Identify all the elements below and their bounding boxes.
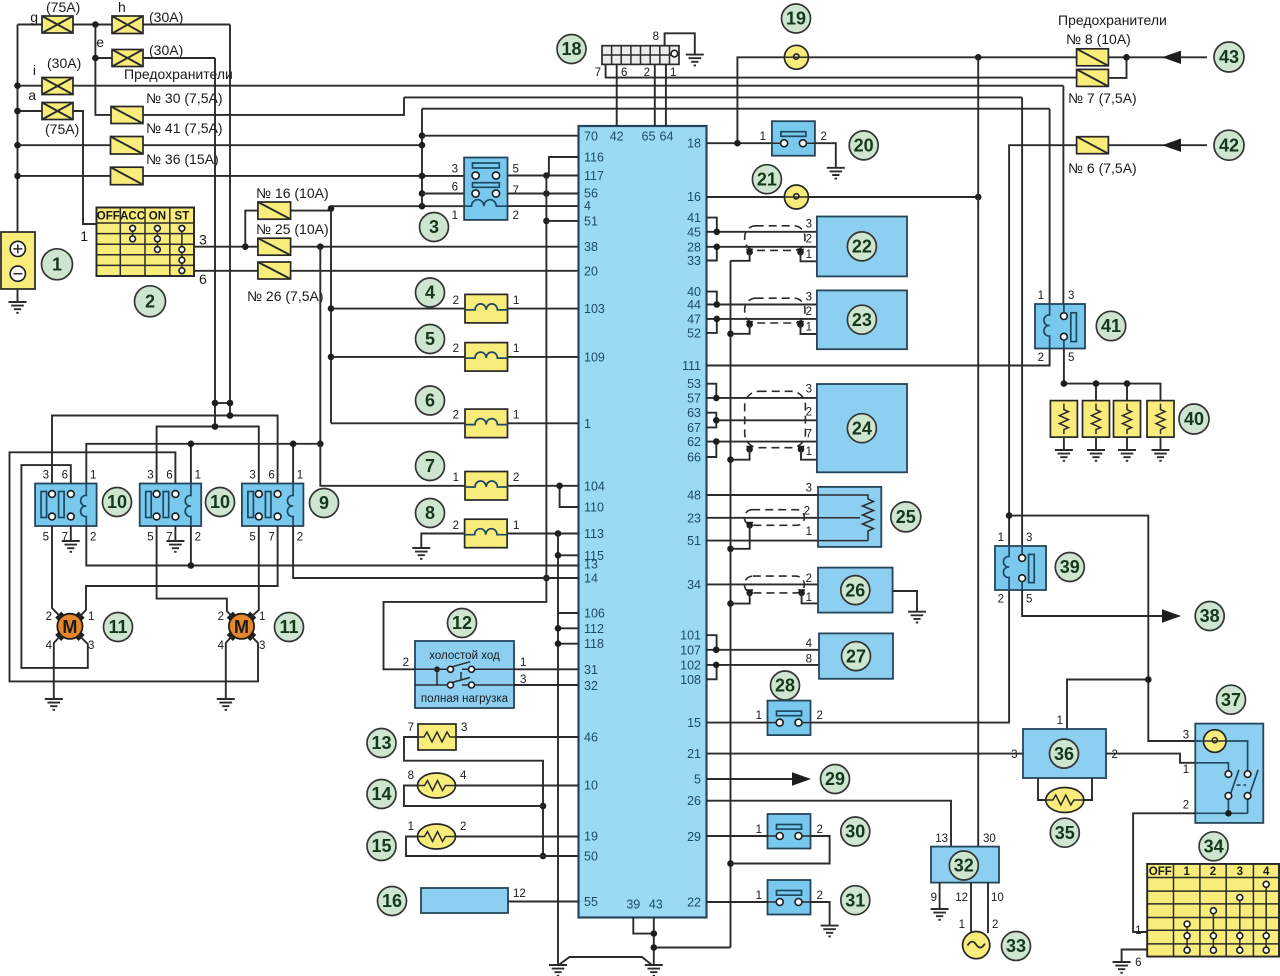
lamp 21 bbox=[784, 185, 808, 209]
wire relay9 pin2 to ECU 14 bbox=[293, 526, 578, 578]
wire ECU 111 to relay41 pin2 bbox=[707, 349, 1050, 366]
wire shield26 drain bbox=[731, 593, 819, 604]
battery 1 bbox=[1, 232, 35, 289]
wire comp36 legs to glow plug 35 bbox=[1038, 778, 1092, 800]
svg-text:2: 2 bbox=[513, 472, 519, 484]
svg-text:4: 4 bbox=[806, 638, 813, 650]
wire relay9 pin5 to motor11b pin1 bbox=[250, 526, 259, 618]
wire ECU 41/45 pair to comp22 pin3 bbox=[707, 218, 817, 236]
node label 22 bbox=[847, 232, 876, 261]
node label 33 bbox=[1002, 932, 1031, 961]
wire ECU 48 to comp25 pin3 bbox=[707, 494, 819, 496]
wire relay41 pin5 to resistor bus bbox=[1061, 349, 1161, 401]
svg-text:6: 6 bbox=[268, 470, 274, 482]
wire comp12 pin3 to ECU 32 bbox=[514, 684, 579, 686]
sensor 24 bbox=[806, 384, 907, 473]
wire ECU 53/57 pair to comp24 pin3 bbox=[707, 384, 817, 402]
svg-text:53: 53 bbox=[687, 377, 701, 391]
svg-text:2: 2 bbox=[817, 824, 823, 836]
svg-text:34: 34 bbox=[687, 578, 701, 592]
ground relay10a pin7 bbox=[62, 526, 80, 552]
relay 28 bbox=[756, 701, 823, 736]
ignition coil module 32 bbox=[931, 833, 1004, 904]
svg-text:14: 14 bbox=[584, 572, 598, 586]
svg-text:2: 2 bbox=[821, 131, 827, 143]
component 27 bbox=[806, 633, 893, 678]
svg-text:4: 4 bbox=[218, 640, 225, 652]
svg-text:OFF: OFF bbox=[97, 211, 120, 223]
ignition switch 2 table bbox=[80, 208, 207, 288]
node label 34 bbox=[1199, 832, 1228, 861]
svg-text:1: 1 bbox=[1183, 866, 1190, 878]
svg-text:2: 2 bbox=[513, 210, 519, 222]
wire fuse8 to arrow 43 bbox=[1108, 51, 1207, 64]
svg-text:21: 21 bbox=[687, 747, 701, 761]
node label 11 (left) bbox=[104, 613, 133, 642]
svg-text:1: 1 bbox=[520, 657, 526, 669]
svg-text:3: 3 bbox=[88, 640, 94, 652]
wire lamp14 pin8 loop bbox=[404, 786, 543, 807]
svg-text:1: 1 bbox=[259, 611, 265, 623]
relay 41 bbox=[1035, 290, 1085, 364]
svg-text:3: 3 bbox=[1237, 866, 1243, 878]
wire lamp14 to ECU 10 bbox=[456, 785, 579, 787]
wire vertical x1022.1 to relay39 pin3 bbox=[1021, 97, 1023, 546]
svg-text:23: 23 bbox=[852, 310, 872, 330]
svg-text:1: 1 bbox=[760, 131, 766, 143]
arrow 29 from ECU 5 bbox=[707, 772, 812, 785]
node label 1 bbox=[42, 249, 73, 280]
wire injector4 to ECU 103 bbox=[331, 308, 579, 310]
svg-text:№ 16 (10А): № 16 (10А) bbox=[256, 185, 329, 201]
svg-text:2: 2 bbox=[998, 594, 1004, 606]
wire fuse16 feed bbox=[245, 211, 258, 247]
node label 10 (left) bbox=[103, 488, 132, 517]
wire injector8 left to ground bbox=[412, 534, 464, 559]
relay 3 main relay bbox=[452, 158, 519, 223]
ground comp26 bbox=[893, 591, 926, 623]
injector 4 bbox=[453, 294, 520, 323]
svg-text:7: 7 bbox=[595, 67, 601, 79]
svg-text:6: 6 bbox=[166, 470, 172, 482]
svg-text:20: 20 bbox=[584, 264, 598, 278]
fusible link g (75A) bbox=[30, 0, 80, 33]
svg-text:4: 4 bbox=[460, 770, 467, 782]
svg-text:3: 3 bbox=[43, 470, 49, 482]
svg-text:7: 7 bbox=[806, 429, 812, 441]
wire relay pin2s to ECU 13 bbox=[86, 526, 578, 569]
svg-text:1: 1 bbox=[806, 526, 812, 538]
svg-text:12: 12 bbox=[955, 892, 968, 904]
svg-text:a: a bbox=[28, 87, 36, 103]
ground motor11b bbox=[217, 635, 235, 710]
wire motor11a pin1 to relay9 pin7 bbox=[79, 526, 278, 618]
wire fuse6 feed vertical x1009.1 bbox=[1006, 145, 1077, 546]
svg-text:21: 21 bbox=[757, 169, 777, 189]
svg-text:32: 32 bbox=[584, 679, 598, 693]
svg-text:6: 6 bbox=[1135, 957, 1141, 969]
switch unit 37 bbox=[1183, 724, 1264, 823]
wire shield23 drain bbox=[731, 325, 817, 334]
svg-text:22: 22 bbox=[687, 896, 701, 910]
svg-text:1: 1 bbox=[756, 710, 762, 722]
wire fuse e output vertical x215 bbox=[143, 58, 215, 427]
svg-text:6: 6 bbox=[452, 182, 458, 194]
svg-text:26: 26 bbox=[687, 794, 701, 808]
svg-text:41: 41 bbox=[1101, 316, 1121, 336]
svg-text:3: 3 bbox=[1183, 730, 1189, 742]
svg-text:31: 31 bbox=[845, 890, 865, 910]
node label 10 (middle) bbox=[206, 488, 235, 517]
svg-text:M: M bbox=[234, 617, 249, 637]
shield comp26 bbox=[744, 576, 805, 597]
svg-text:19: 19 bbox=[786, 9, 806, 29]
ground connector18 pin8 bbox=[665, 33, 704, 65]
svg-text:8: 8 bbox=[408, 770, 414, 782]
svg-text:M: M bbox=[62, 617, 77, 637]
svg-text:1: 1 bbox=[452, 210, 458, 222]
svg-text:30: 30 bbox=[983, 833, 996, 845]
svg-text:67: 67 bbox=[687, 421, 701, 435]
svg-text:1: 1 bbox=[584, 417, 591, 431]
fuse No7 (7.5A) bbox=[1068, 69, 1137, 106]
svg-text:№ 8 (10А): № 8 (10А) bbox=[1066, 31, 1131, 47]
svg-text:2: 2 bbox=[804, 506, 810, 518]
wire fuse h output vertical x230 bbox=[229, 25, 231, 416]
node label 8 bbox=[416, 499, 445, 528]
wire ECU 22 to relay31 pin1 bbox=[707, 901, 768, 903]
node label 12 bbox=[448, 609, 477, 638]
wire lamp19 to fuse8 bbox=[808, 54, 1076, 61]
svg-text:57: 57 bbox=[687, 391, 701, 405]
ground battery bbox=[9, 289, 27, 313]
wire ground vertical x558 with ECU 115/106/112/118 stubs bbox=[549, 534, 579, 976]
svg-text:44: 44 bbox=[687, 298, 701, 312]
wire fuse6 to arrow 42 bbox=[1108, 139, 1207, 152]
wire ECU 29 to relay30 pin1 bbox=[707, 835, 768, 837]
arrow 38 from relay39 pin5 bbox=[1022, 590, 1181, 623]
svg-text:ACC: ACC bbox=[120, 211, 145, 223]
svg-text:65: 65 bbox=[642, 130, 656, 144]
svg-text:3: 3 bbox=[806, 384, 812, 396]
svg-text:46: 46 bbox=[584, 731, 598, 745]
svg-text:1: 1 bbox=[1038, 290, 1044, 302]
ground motor11a bbox=[45, 635, 63, 710]
svg-text:(75А): (75А) bbox=[46, 0, 80, 15]
node label 18 bbox=[557, 35, 586, 64]
svg-text:7: 7 bbox=[408, 722, 414, 734]
svg-text:3: 3 bbox=[452, 164, 458, 176]
svg-text:(75А): (75А) bbox=[45, 121, 79, 137]
svg-text:15: 15 bbox=[687, 716, 701, 730]
svg-text:1: 1 bbox=[513, 520, 519, 532]
fuse No16 (10A) bbox=[256, 185, 329, 219]
svg-text:2: 2 bbox=[817, 710, 823, 722]
svg-text:10: 10 bbox=[107, 492, 127, 512]
svg-text:9: 9 bbox=[319, 493, 329, 513]
wire vertical x546.4 to comp12 pin2 bbox=[384, 176, 550, 670]
wire relay10a pin5 to motor11a pin2 bbox=[52, 526, 61, 618]
svg-text:1: 1 bbox=[80, 228, 88, 244]
svg-text:3: 3 bbox=[199, 232, 207, 248]
svg-text:22: 22 bbox=[852, 237, 872, 257]
svg-text:2: 2 bbox=[195, 532, 201, 544]
svg-text:7: 7 bbox=[425, 456, 435, 476]
svg-text:1: 1 bbox=[806, 592, 812, 604]
svg-text:2: 2 bbox=[1112, 749, 1118, 761]
svg-text:50: 50 bbox=[584, 850, 598, 864]
svg-text:3: 3 bbox=[461, 722, 467, 734]
resistor 40b bbox=[1083, 401, 1110, 461]
svg-text:1: 1 bbox=[453, 472, 459, 484]
wire ECU 40/44 pair to comp23 pin3 bbox=[707, 292, 817, 308]
svg-text:2: 2 bbox=[90, 532, 96, 544]
svg-text:40: 40 bbox=[687, 285, 701, 299]
svg-text:g: g bbox=[30, 9, 38, 25]
svg-text:№ 6 (7,5А): № 6 (7,5А) bbox=[1068, 160, 1137, 176]
wire bus y108.7 feed vertical x422 bbox=[419, 109, 426, 207]
svg-text:51: 51 bbox=[584, 214, 598, 228]
component 16 bbox=[421, 888, 526, 913]
svg-text:1: 1 bbox=[513, 410, 519, 422]
ground comp32 pin9 bbox=[931, 883, 949, 920]
svg-text:3: 3 bbox=[806, 219, 812, 231]
svg-text:9: 9 bbox=[931, 892, 937, 904]
svg-text:8: 8 bbox=[425, 503, 435, 523]
wire fuse e/h feed vertical x95.4 bbox=[95, 25, 112, 115]
wire shield22 drain bbox=[731, 252, 817, 261]
svg-text:33: 33 bbox=[1006, 936, 1026, 956]
node label 6 bbox=[416, 386, 445, 415]
svg-text:1: 1 bbox=[756, 890, 762, 902]
wire comp37 pin2 to table34 bbox=[1133, 813, 1195, 932]
wire injector7 to ECU 104/110 bbox=[320, 444, 578, 507]
svg-text:16: 16 bbox=[382, 891, 402, 911]
injector 8 bbox=[453, 519, 520, 548]
svg-text:25: 25 bbox=[896, 507, 916, 527]
ground relay10b pin7 bbox=[166, 526, 184, 552]
fuse No26 (7.5A) bbox=[247, 262, 324, 304]
relay 10 (left) bbox=[35, 470, 97, 544]
svg-text:20: 20 bbox=[854, 136, 874, 156]
svg-text:2: 2 bbox=[453, 410, 459, 422]
svg-text:8: 8 bbox=[653, 31, 659, 43]
wire ECU 47/52 pair to comp23 pin2 bbox=[707, 316, 817, 333]
svg-text:103: 103 bbox=[584, 302, 605, 316]
svg-text:45: 45 bbox=[687, 225, 701, 239]
svg-text:43: 43 bbox=[649, 898, 663, 912]
wire vertical x1063.4 to relay41 pin3 bbox=[1062, 86, 1064, 304]
svg-text:12: 12 bbox=[513, 888, 526, 900]
node label 40 bbox=[1179, 404, 1209, 434]
svg-text:62: 62 bbox=[687, 435, 701, 449]
svg-text:5: 5 bbox=[425, 329, 435, 349]
svg-text:13: 13 bbox=[935, 833, 948, 845]
wire relay28 pin2 to relay39 pin2 bbox=[811, 590, 1010, 723]
sensor 23 bbox=[806, 290, 907, 349]
svg-text:112: 112 bbox=[584, 622, 604, 636]
svg-text:7: 7 bbox=[268, 532, 274, 544]
svg-text:27: 27 bbox=[846, 646, 866, 666]
injector 7 bbox=[453, 472, 520, 501]
svg-text:8: 8 bbox=[806, 653, 812, 665]
svg-text:(30А): (30А) bbox=[149, 9, 183, 25]
wire shield24 drain bbox=[731, 449, 817, 459]
svg-text:41: 41 bbox=[687, 211, 701, 225]
svg-text:6: 6 bbox=[199, 271, 207, 287]
wire line A relay10a pin3 to relay9 pin6 bbox=[52, 412, 278, 483]
svg-text:117: 117 bbox=[584, 169, 604, 183]
oxygen sensor 22 bbox=[806, 217, 907, 277]
svg-text:37: 37 bbox=[1221, 690, 1241, 710]
node label 31 bbox=[841, 886, 870, 915]
resistor 40d bbox=[1147, 401, 1174, 461]
wire line C relay coil feed bus bbox=[86, 441, 320, 484]
fuse No25 (10A) bbox=[256, 221, 329, 255]
sensor 26 bbox=[806, 568, 893, 613]
svg-text:11: 11 bbox=[108, 617, 127, 637]
svg-text:10: 10 bbox=[584, 779, 598, 793]
svg-text:ST: ST bbox=[175, 211, 190, 223]
svg-text:2: 2 bbox=[218, 611, 224, 623]
node label 13 bbox=[367, 729, 396, 758]
svg-text:7: 7 bbox=[513, 185, 519, 197]
svg-text:h: h bbox=[118, 0, 126, 15]
svg-text:64: 64 bbox=[660, 130, 674, 144]
svg-text:116: 116 bbox=[584, 151, 604, 165]
ground relay31 pin2 bbox=[811, 902, 839, 936]
wire bridge e-h verticals bbox=[212, 400, 234, 407]
svg-text:3: 3 bbox=[249, 470, 255, 482]
node label 38 bbox=[1195, 602, 1224, 631]
wire line B relay10b pin3 to relay9 pin3 bbox=[157, 423, 259, 483]
svg-text:1: 1 bbox=[1057, 715, 1063, 727]
svg-text:1: 1 bbox=[1183, 764, 1189, 776]
wire relay10b pin5 to motor11b pin2 bbox=[157, 526, 233, 618]
injector 5 bbox=[453, 343, 520, 372]
svg-text:29: 29 bbox=[687, 830, 701, 844]
node label 35 bbox=[1050, 818, 1079, 847]
lamp 14 bbox=[408, 770, 467, 798]
node label 7 bbox=[416, 452, 445, 481]
fuse No30 (7.5A) bbox=[111, 90, 223, 124]
svg-text:1: 1 bbox=[513, 295, 519, 307]
wire ECU 101/107 pair to comp27 pin4 bbox=[707, 635, 820, 653]
ECU engine control unit bbox=[579, 126, 707, 918]
svg-text:111: 111 bbox=[682, 359, 701, 373]
node label 15 bbox=[367, 832, 396, 861]
svg-text:5: 5 bbox=[249, 532, 255, 544]
svg-text:23: 23 bbox=[687, 511, 701, 525]
svg-text:3: 3 bbox=[1011, 749, 1017, 761]
node label 20 bbox=[849, 131, 878, 160]
node label 39 bbox=[1055, 553, 1084, 582]
svg-text:108: 108 bbox=[680, 673, 701, 687]
lamp 19 bbox=[784, 45, 808, 69]
svg-text:66: 66 bbox=[687, 451, 701, 465]
svg-text:1: 1 bbox=[756, 824, 762, 836]
wire resistor13 pin7 loop bbox=[404, 737, 546, 859]
svg-text:1: 1 bbox=[52, 255, 62, 275]
wire comp36 pin2 to comp37 pin1 bbox=[1106, 754, 1195, 763]
wire fuse6 branch to comp36 pin1 and comp37 pin3 bbox=[1009, 516, 1195, 741]
node label 21 bbox=[752, 165, 781, 194]
shield comp23 pair bbox=[745, 298, 805, 328]
wire comp16 to ECU 55 bbox=[508, 901, 579, 903]
relay 31 bbox=[756, 880, 823, 915]
svg-text:4: 4 bbox=[46, 640, 53, 652]
resistor 40a bbox=[1050, 401, 1077, 461]
svg-text:104: 104 bbox=[584, 479, 605, 493]
svg-text:6: 6 bbox=[425, 391, 435, 411]
svg-text:2: 2 bbox=[297, 532, 303, 544]
node label 14 bbox=[367, 780, 396, 809]
wire injector feed vertical x331 bbox=[328, 211, 335, 424]
wire comp32 to alternator 33 bbox=[959, 883, 999, 933]
wire ECU 63/67 pair to comp24 pin2 bbox=[707, 413, 817, 428]
svg-text:3: 3 bbox=[1026, 532, 1032, 544]
svg-text:110: 110 bbox=[584, 501, 604, 515]
svg-text:1: 1 bbox=[90, 470, 96, 482]
svg-text:3: 3 bbox=[429, 217, 439, 237]
svg-text:1: 1 bbox=[297, 470, 303, 482]
svg-text:3: 3 bbox=[259, 640, 265, 652]
node label 36 bbox=[1050, 739, 1079, 768]
wire connector18 pins to ECU 42/65/64 bbox=[617, 64, 666, 126]
wire ECU 51 to comp25 pin1 bbox=[707, 540, 819, 542]
svg-text:63: 63 bbox=[687, 406, 701, 420]
node label 25 bbox=[891, 502, 921, 532]
glow plug 35 bbox=[1046, 788, 1084, 813]
node label 9 bbox=[310, 489, 339, 518]
svg-text:3: 3 bbox=[1068, 290, 1074, 302]
wire injector8 to ECU 113 bbox=[507, 530, 578, 537]
svg-text:ON: ON bbox=[149, 211, 166, 223]
svg-text:1: 1 bbox=[1135, 925, 1141, 937]
injector 6 bbox=[453, 409, 520, 438]
wire bus connector18 pin7 to fuse7 bbox=[606, 64, 1077, 77]
wire lamp19 to ECU 18 and relay20 bbox=[707, 57, 785, 146]
svg-text:31: 31 bbox=[584, 663, 598, 677]
wire ECU 26 to comp32 pin13 bbox=[707, 801, 952, 847]
svg-text:42: 42 bbox=[610, 130, 624, 144]
svg-text:№ 7 (7,5А): № 7 (7,5А) bbox=[1068, 90, 1137, 106]
relay 9 bbox=[242, 470, 304, 544]
svg-text:36: 36 bbox=[1054, 744, 1074, 764]
node label 26 bbox=[841, 576, 870, 605]
svg-text:1: 1 bbox=[88, 611, 94, 623]
motor 11 (left) bbox=[46, 611, 95, 652]
svg-text:11: 11 bbox=[279, 617, 298, 637]
wire ignition sw pin3 through fuse25 to ECU pin38 bbox=[194, 243, 579, 250]
fuse No41 (7.5A) bbox=[111, 120, 223, 154]
svg-text:106: 106 bbox=[584, 607, 605, 621]
svg-text:(30А): (30А) bbox=[47, 55, 81, 71]
relay 39 bbox=[995, 532, 1046, 606]
alternator 33 bbox=[963, 932, 990, 959]
svg-text:48: 48 bbox=[687, 489, 701, 503]
wire relay3 pin5 to ECU 117/116 bbox=[508, 157, 579, 179]
node label 19 bbox=[782, 4, 811, 33]
svg-text:e: e bbox=[96, 34, 104, 50]
svg-text:4: 4 bbox=[425, 283, 435, 303]
node label 4 bbox=[416, 278, 445, 307]
wire motor11a pin3 to relay10a pin6 bbox=[21, 465, 87, 668]
svg-text:№ 36 (15А): № 36 (15А) bbox=[146, 151, 219, 167]
svg-text:OFF: OFF bbox=[1149, 866, 1172, 878]
svg-text:2: 2 bbox=[46, 611, 52, 623]
svg-text:5: 5 bbox=[43, 532, 49, 544]
